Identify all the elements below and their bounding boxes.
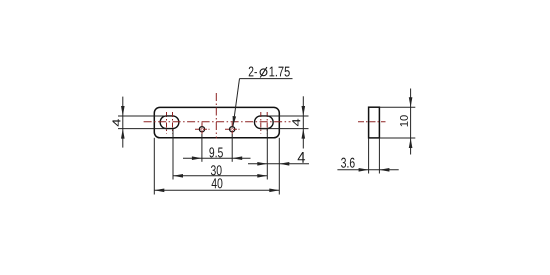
dimension 9.5 hole spacing: extension lines and dim line — [183, 134, 251, 162]
centerline hole left cross — [195, 122, 210, 136]
centerline side view — [358, 121, 386, 123]
leader arrowhead — [233, 116, 237, 126]
dimension 3.6 arrows — [359, 168, 369, 172]
dimension 3.6 side thickness: extension lines and dim line — [337, 138, 398, 174]
dimension 30 arrows — [173, 174, 183, 178]
dimension 40 arrows — [154, 189, 164, 193]
side view plate section — [369, 107, 380, 138]
centerline slot left arc 1 — [166, 112, 168, 134]
dimension 4 right value text — [292, 119, 300, 126]
dimension 4 right slot height: extension lines and dim line — [261, 96, 309, 148]
dimension 3.6 value text — [341, 158, 355, 168]
centerline slot right arc 2 — [266, 112, 268, 134]
leader diameter symbol — [260, 69, 267, 76]
slot right — [254, 116, 273, 129]
dimension 10 side height: extension lines and dim line — [379, 89, 415, 155]
dimension 4 left arrows — [121, 106, 125, 116]
dimension 4 horizontal value text — [298, 152, 305, 163]
centerline slot left arc 2 — [172, 112, 174, 134]
dimension 10 value text — [400, 115, 408, 126]
leader for hole callout: shoulder line and slanted leader — [233, 79, 293, 127]
dimension 30 slot spacing: extension lines and dim line — [173, 129, 267, 180]
dimension 9.5 value text — [209, 147, 222, 157]
dimension 30 value text — [211, 165, 222, 175]
dimension 4 slot-center-to-edge: dim line — [248, 163, 309, 165]
dimension 9.5 arrows — [192, 156, 202, 160]
dimension 40 overall length: extension lines and dim line — [154, 138, 279, 195]
centerline horizontal main — [144, 121, 291, 123]
centerline vertical main — [215, 93, 217, 139]
leader text 2- — [249, 66, 257, 76]
plate outline (front view) — [154, 107, 279, 137]
centerline hole right cross — [225, 122, 240, 136]
dimension 4 horizontal arrows — [257, 162, 267, 166]
hole left — [199, 127, 204, 132]
dimension 4 right arrows — [302, 106, 306, 116]
dimension 4 left value text — [112, 119, 120, 126]
dimension 4 left slot height: extension lines and dim line — [118, 97, 167, 148]
leader text 1.75 — [270, 67, 290, 77]
slot left — [160, 116, 179, 129]
dimension 10 arrows — [409, 97, 413, 107]
dimension 40 value text — [212, 178, 223, 188]
centerline slot right arc 1 — [260, 112, 262, 134]
hole right — [230, 127, 235, 132]
